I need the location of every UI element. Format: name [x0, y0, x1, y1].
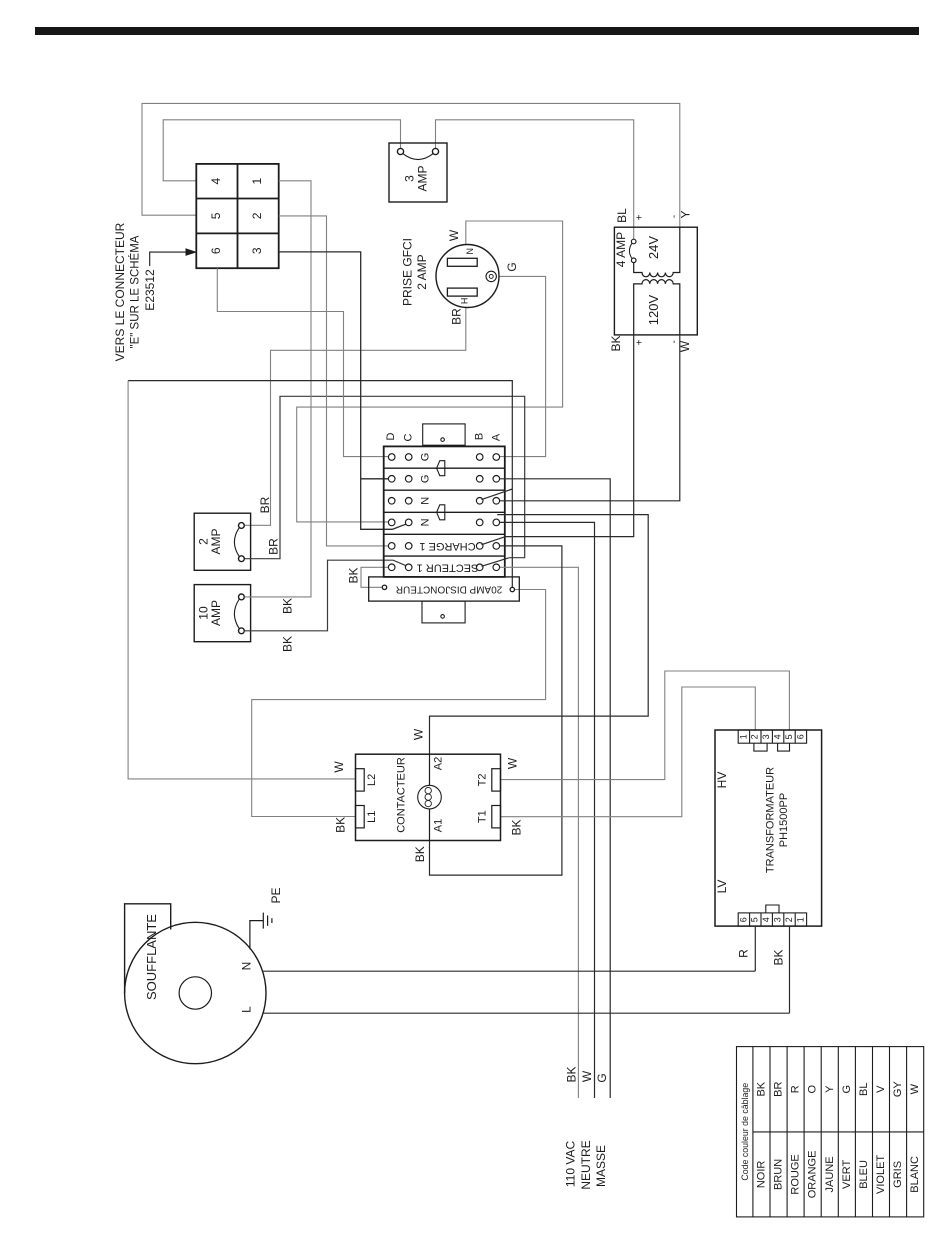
svg-text:1: 1 [250, 178, 264, 185]
svg-text:3: 3 [403, 175, 417, 182]
svg-text:BR: BR [267, 538, 281, 555]
svg-text:JAUNE: JAUNE [824, 1156, 836, 1192]
svg-text:T2: T2 [477, 773, 489, 786]
svg-text:1: 1 [795, 917, 805, 922]
svg-text:BK: BK [510, 819, 524, 835]
switch blade row3 right [482, 489, 513, 500]
wire color table [737, 1047, 924, 1217]
svg-text:BK: BK [609, 335, 623, 351]
svg-text:HV: HV [715, 772, 729, 789]
svg-text:SOUFFLANTE: SOUFFLANTE [144, 914, 159, 1000]
wire contactor T2 to PH1500 pin5 [501, 671, 790, 780]
120V winding [634, 280, 680, 335]
svg-text:Y: Y [679, 210, 693, 218]
fuse F3 10 AMP [194, 585, 250, 642]
svg-text:BR: BR [773, 1082, 785, 1097]
wire blower N to PH1500 pin5 [262, 970, 755, 972]
svg-text:V: V [875, 1085, 887, 1093]
transformer PH1500PP box [715, 730, 822, 926]
transformer T1 24V/120V box [614, 227, 697, 335]
svg-text:5: 5 [209, 212, 223, 219]
svg-text:G: G [841, 1085, 853, 1094]
svg-text:BK: BK [756, 1081, 768, 1096]
svg-text:N: N [420, 518, 432, 526]
svg-text:W: W [412, 728, 426, 740]
svg-text:BR: BR [258, 496, 272, 513]
svg-text:BK: BK [347, 567, 361, 583]
wire PH1500 pin2 bottom BK [789, 926, 791, 1013]
svg-text:G: G [420, 453, 432, 462]
breaker 20A [369, 577, 520, 601]
switch blade row6 right [482, 558, 509, 567]
svg-text:BL: BL [858, 1082, 870, 1095]
jumper pins 4-3 bottom [766, 905, 779, 913]
fuse F1 3 AMP [389, 143, 447, 202]
svg-text:PRISE GFCI: PRISE GFCI [401, 238, 415, 306]
svg-text:G: G [505, 262, 519, 271]
svg-text:2: 2 [250, 212, 264, 219]
svg-text:"E" SUR LE SCHÉMA: "E" SUR LE SCHÉMA [129, 235, 142, 348]
jumper N-N [437, 505, 445, 520]
svg-text:BK: BK [565, 1066, 579, 1082]
svg-text:6: 6 [738, 917, 748, 922]
ground PE [250, 913, 272, 950]
GFCI outlet [436, 245, 499, 308]
wire net conn5 to 24V secondary Y [142, 103, 680, 227]
svg-text:N: N [420, 497, 432, 505]
wire blower L to PH1500 pin2 [263, 1012, 789, 1014]
svg-text:L: L [240, 1006, 254, 1013]
title bar [35, 27, 919, 35]
svg-text:H: H [459, 298, 469, 305]
svg-text:BK: BK [772, 949, 786, 965]
switch blade row5 right [482, 537, 506, 545]
svg-text:W: W [909, 1083, 921, 1094]
wire conn3 to row2 D and row4 blade [279, 252, 408, 529]
svg-text:VIOLET: VIOLET [875, 1155, 887, 1194]
bottom pin numbers [738, 917, 805, 922]
svg-text:Y: Y [824, 1085, 836, 1093]
svg-text:LV: LV [715, 880, 729, 894]
svg-text:3: 3 [250, 247, 264, 254]
svg-text:BRUN: BRUN [773, 1159, 785, 1190]
svg-text:1: 1 [738, 734, 748, 739]
svg-text:AMP: AMP [416, 165, 430, 191]
wire row2 A to MASSE [500, 479, 610, 1098]
svg-text:T1: T1 [477, 810, 489, 823]
wire 2AMP bottom to SECTEUR blade [244, 396, 524, 558]
wire fuse F1 right to 24V primary BL [436, 120, 634, 239]
wire GFCI BR to fuse 2AMP top [244, 307, 465, 525]
jumper pins 2-3 [754, 743, 767, 751]
svg-text:BK: BK [333, 817, 347, 833]
table color names [756, 1151, 922, 1199]
svg-text:GY: GY [892, 1081, 904, 1098]
blower SOUFFLANTE [125, 904, 266, 1064]
rail end clamp bottom [422, 601, 465, 623]
wire SECTEUR D-circle to breaker left [361, 567, 388, 587]
svg-text:E23512: E23512 [143, 269, 157, 311]
svg-text:Code couleur de câblage: Code couleur de câblage [740, 1083, 750, 1181]
svg-text:NOIR: NOIR [756, 1161, 768, 1189]
PH1500 top pin strip [738, 730, 806, 743]
svg-text:BLANC: BLANC [909, 1156, 921, 1193]
svg-text:ORANGE: ORANGE [807, 1151, 819, 1199]
svg-text:4: 4 [209, 178, 223, 185]
svg-text:MASSE: MASSE [594, 1145, 608, 1187]
svg-text:D: D [385, 432, 397, 440]
jumper G-G [437, 461, 445, 476]
svg-text:110 VAC: 110 VAC [564, 1141, 578, 1188]
wire conn2 to CHARGE circle D [279, 216, 389, 546]
svg-text:PE: PE [269, 887, 283, 903]
svg-text:+: + [635, 339, 646, 345]
svg-text:N: N [465, 248, 475, 255]
svg-text:W: W [332, 761, 346, 773]
svg-text:W: W [506, 757, 520, 769]
svg-text:W: W [447, 229, 461, 241]
svg-text:2 AMP: 2 AMP [415, 254, 429, 289]
24V winding [634, 227, 680, 277]
svg-text:G: G [420, 475, 432, 484]
wire CHARGE A to contactor A1 [430, 546, 562, 875]
svg-text:5: 5 [784, 734, 794, 739]
wire row4 A to NEUTRE [500, 522, 595, 1098]
svg-text:2: 2 [750, 734, 760, 739]
svg-text:GRIS: GRIS [892, 1161, 904, 1188]
svg-text:4 AMP: 4 AMP [614, 232, 628, 267]
fuse F2 2 AMP [194, 513, 250, 570]
svg-text:BK: BK [281, 636, 295, 652]
wire GFCI W to terminal N row4 [297, 221, 563, 522]
svg-text:BL: BL [615, 208, 629, 223]
svg-text:TRANSFORMATEUR: TRANSFORMATEUR [764, 767, 776, 873]
svg-text:VERS LE CONNECTEUR: VERS LE CONNECTEUR [113, 222, 127, 361]
svg-text:B: B [473, 433, 485, 440]
svg-text:C: C [402, 433, 414, 441]
terminal block TB1 [384, 446, 505, 577]
wire contactor T1 to PH1500 pin2 [501, 687, 756, 817]
svg-text:PH1500PP: PH1500PP [778, 793, 790, 847]
svg-text:6: 6 [209, 247, 223, 254]
contactor K1 [356, 754, 501, 840]
svg-text:CONTACTEUR: CONTACTEUR [395, 757, 407, 833]
leader arrow to connector [150, 249, 196, 266]
svg-text:N: N [240, 962, 254, 971]
svg-text:120V: 120V [646, 294, 661, 325]
svg-text:4: 4 [761, 917, 771, 922]
svg-text:20AMP DISJONCTEUR: 20AMP DISJONCTEUR [396, 584, 503, 595]
svg-text:3: 3 [772, 917, 782, 922]
svg-text:R: R [790, 1085, 802, 1093]
svg-text:CHARGE 1: CHARGE 1 [419, 540, 475, 552]
svg-text:BR: BR [449, 308, 463, 325]
wire row4 blade to contactor A2 [430, 515, 649, 755]
svg-text:VERT: VERT [841, 1160, 853, 1189]
wire W rail to contactor L2 [128, 381, 355, 779]
wire conn1 to 10AMP top [244, 181, 311, 597]
wire 120V W- to row3 A [500, 335, 680, 501]
svg-text:ROUGE: ROUGE [790, 1154, 802, 1194]
svg-text:L1: L1 [366, 811, 378, 823]
wire conn6 to terminal row1 D [217, 268, 388, 456]
svg-text:+: + [635, 214, 646, 220]
wire GFCI G to terminal row1 A [497, 276, 546, 456]
wire breaker right to contactor L1 [252, 590, 546, 817]
connector E 6-pin [196, 164, 278, 268]
PH1500 bottom pin strip [738, 913, 806, 926]
svg-text:BK: BK [281, 598, 295, 614]
svg-text:L2: L2 [366, 774, 378, 786]
svg-text:3: 3 [761, 734, 771, 739]
svg-text:O: O [807, 1084, 819, 1093]
table abbreviations [756, 1081, 922, 1098]
svg-text:NEUTRE: NEUTRE [579, 1140, 593, 1189]
svg-text:A: A [491, 433, 503, 441]
fuse F4 4 AMP [629, 239, 636, 262]
svg-text:5: 5 [750, 917, 760, 922]
svg-text:R: R [736, 949, 750, 958]
svg-text:6: 6 [795, 734, 805, 739]
svg-text:BK: BK [413, 846, 427, 862]
wire SECTEUR A to 110VAC [500, 567, 579, 1098]
svg-text:BLEU: BLEU [858, 1160, 870, 1189]
svg-text:4: 4 [772, 734, 782, 739]
wire 120V BK+ to CHARGE blade [506, 335, 634, 537]
jumper pins 4-5 [778, 743, 790, 751]
svg-text:A1: A1 [433, 819, 445, 832]
svg-text:SECTEUR 1: SECTEUR 1 [417, 561, 479, 573]
wire net conn4 to fuse F1 left [163, 120, 400, 181]
svg-text:AMP: AMP [209, 600, 223, 626]
terminal circles [388, 454, 499, 571]
wire 10AMP bottom to SECTEUR left blade [244, 560, 409, 631]
svg-text:AMP: AMP [209, 528, 223, 554]
wire PH1500 pin5 bottom R [754, 926, 756, 971]
svg-text:2: 2 [784, 917, 794, 922]
contactor coil [418, 754, 442, 840]
rail end clamp top [423, 424, 465, 445]
svg-text:A2: A2 [433, 757, 445, 770]
svg-text:W: W [580, 1070, 594, 1082]
wire W rail: line A to breaker right and L2 [128, 381, 512, 588]
svg-text:24V: 24V [646, 236, 661, 259]
svg-text:G: G [595, 1073, 609, 1082]
top pin numbers [738, 734, 805, 739]
